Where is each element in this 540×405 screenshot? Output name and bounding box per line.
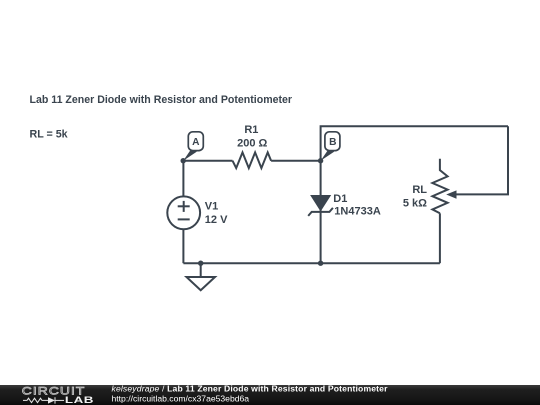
- footer bar: [0, 385, 540, 405]
- svg-text:5 kΩ: 5 kΩ: [403, 197, 427, 209]
- junction dot ground: [198, 261, 203, 266]
- svg-text:LAB: LAB: [65, 396, 94, 405]
- footer byline: [112, 384, 389, 394]
- value 1N4733A: [334, 206, 381, 218]
- wire R1 right lead to node B: [271, 160, 321, 162]
- svg-text:200 Ω: 200 Ω: [237, 138, 267, 150]
- potentiometer RL body: [432, 159, 447, 214]
- ground: [187, 263, 216, 290]
- wire V1 bottom to bottom rail: [182, 229, 184, 263]
- wire potentiometer bottom lead: [439, 213, 441, 263]
- label RL: [412, 184, 427, 196]
- annotation RL = 5k: [30, 129, 68, 141]
- svg-text:RL = 5k: RL = 5k: [30, 129, 68, 141]
- label V1: [205, 201, 218, 213]
- svg-text:RL: RL: [412, 184, 427, 196]
- voltage source V1: [167, 196, 200, 229]
- svg-text:kelseydrape / Lab 11 Zener Dio: kelseydrape / Lab 11 Zener Diode with Re…: [112, 384, 389, 394]
- value 5 kOhm: [403, 197, 427, 209]
- wire bottom rail: [183, 262, 440, 264]
- svg-text:V1: V1: [205, 201, 218, 213]
- node A flag: [183, 132, 203, 161]
- footer url: [112, 394, 250, 404]
- junction dot node A: [181, 158, 186, 163]
- junction dot zener bottom: [318, 261, 323, 266]
- CircuitLab logo wordmark CIRCUIT: [22, 385, 86, 397]
- CircuitLab logo circuit glyph (resistor + diode): [23, 397, 64, 403]
- wire zener branch node B to bottom rail: [320, 161, 322, 264]
- wire node A to R1 left lead: [183, 160, 232, 162]
- svg-text:D1: D1: [333, 193, 347, 205]
- svg-text:http://circuitlab.com/cx37ae53: http://circuitlab.com/cx37ae53ebd6a: [112, 394, 250, 404]
- wire node B up to top rail: [321, 126, 508, 160]
- svg-text:A: A: [192, 137, 200, 148]
- value 200 Ohm: [237, 138, 267, 150]
- value 12 V: [205, 214, 228, 226]
- svg-text:Lab 11 Zener Diode with Resist: Lab 11 Zener Diode with Resistor and Pot…: [30, 94, 293, 106]
- svg-text:12 V: 12 V: [205, 214, 228, 226]
- svg-text:B: B: [329, 137, 336, 148]
- title text: [30, 94, 293, 106]
- node B flag: [321, 132, 340, 161]
- zener diode D1: [308, 196, 333, 216]
- svg-text:1N4733A: 1N4733A: [334, 206, 381, 218]
- label R1: [244, 124, 258, 136]
- svg-text:R1: R1: [244, 124, 258, 136]
- CircuitLab logo wordmark LAB: [65, 396, 94, 405]
- label D1: [333, 193, 347, 205]
- wire node A down to V1: [182, 161, 184, 197]
- wire right rail down to wiper: [456, 126, 509, 194]
- junction dot node B: [318, 158, 323, 163]
- potentiometer wiper arrow: [446, 190, 456, 198]
- resistor R1: [233, 152, 272, 168]
